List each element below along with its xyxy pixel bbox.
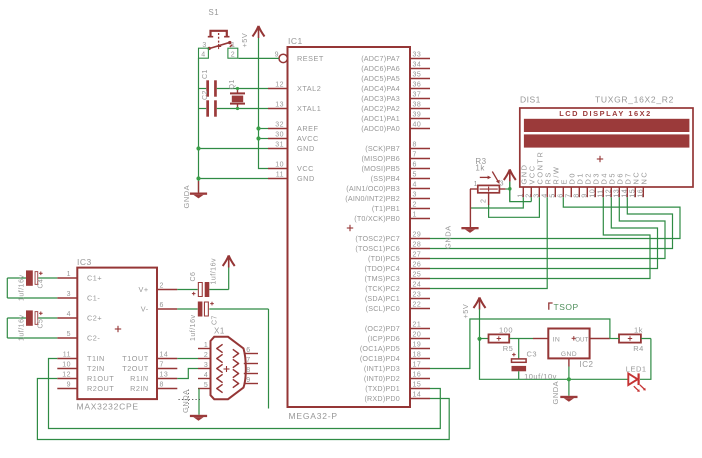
- svg-text:1uf/16v: 1uf/16v: [19, 275, 26, 301]
- svg-text:11: 11: [63, 352, 71, 359]
- svg-text:T1OUT: T1OUT: [122, 354, 148, 363]
- svg-text:(MOSI)PB5: (MOSI)PB5: [361, 164, 400, 173]
- svg-text:29: 29: [413, 232, 422, 239]
- svg-text:14: 14: [160, 352, 169, 359]
- svg-text:(OC1A)PD5: (OC1A)PD5: [360, 344, 400, 353]
- svg-text:9: 9: [67, 382, 71, 389]
- svg-text:2: 2: [204, 352, 208, 359]
- svg-text:+5V: +5V: [461, 304, 470, 319]
- svg-text:12: 12: [275, 82, 284, 89]
- svg-text:C6: C6: [190, 272, 197, 282]
- svg-text:C5: C5: [38, 319, 45, 329]
- svg-text:(TXD)PD1: (TXD)PD1: [365, 384, 400, 393]
- svg-text:RESET: RESET: [297, 54, 324, 63]
- svg-text:C1-: C1-: [87, 294, 100, 303]
- svg-text:9: 9: [246, 377, 250, 384]
- svg-text:8: 8: [160, 382, 164, 389]
- svg-text:2: 2: [481, 199, 488, 203]
- svg-text:X1: X1: [214, 327, 225, 336]
- svg-text:+5V: +5V: [240, 33, 249, 48]
- svg-text:(T0/XCK)PB0: (T0/XCK)PB0: [354, 214, 400, 223]
- svg-text:(T1)PB1: (T1)PB1: [372, 204, 400, 213]
- svg-text:(OC2)PD7: (OC2)PD7: [365, 324, 400, 333]
- svg-text:27: 27: [413, 252, 422, 259]
- svg-text:C7: C7: [211, 315, 218, 325]
- svg-text:IC3: IC3: [77, 257, 92, 267]
- svg-text:10: 10: [62, 362, 71, 369]
- svg-text:C1+: C1+: [87, 274, 102, 283]
- svg-text:AVCC: AVCC: [297, 134, 319, 143]
- svg-text:8: 8: [246, 367, 250, 374]
- svg-text:(SS)PB4: (SS)PB4: [371, 174, 400, 183]
- svg-text:22: 22: [413, 302, 422, 309]
- svg-text:(AIN1/OC0)PB3: (AIN1/OC0)PB3: [346, 184, 400, 193]
- svg-text:T2IN: T2IN: [87, 364, 105, 373]
- svg-text:IN: IN: [553, 336, 561, 343]
- svg-text:1: 1: [474, 181, 478, 188]
- svg-text:13: 13: [275, 102, 284, 109]
- svg-text:4: 4: [413, 182, 417, 189]
- svg-text:34: 34: [413, 62, 422, 69]
- svg-text:R4: R4: [633, 344, 644, 353]
- svg-text:(INT1)PD3: (INT1)PD3: [364, 364, 400, 373]
- svg-text:(ADC6)PA6: (ADC6)PA6: [361, 64, 400, 73]
- svg-text:100: 100: [499, 326, 513, 335]
- svg-text:TSOP: TSOP: [554, 302, 579, 312]
- svg-text:GND: GND: [297, 174, 315, 183]
- svg-text:6: 6: [160, 302, 164, 309]
- svg-text:1: 1: [204, 342, 208, 349]
- svg-text:5: 5: [413, 172, 417, 179]
- svg-text:15: 15: [413, 382, 422, 389]
- svg-text:26: 26: [413, 262, 422, 269]
- svg-text:2: 2: [413, 202, 417, 209]
- svg-text:XTAL2: XTAL2: [297, 84, 321, 93]
- svg-text:MAX3232CPE: MAX3232CPE: [77, 402, 139, 412]
- svg-text:(SCK)PB7: (SCK)PB7: [365, 144, 400, 153]
- svg-text:1: 1: [67, 271, 71, 278]
- svg-text:LED1: LED1: [626, 365, 647, 374]
- svg-text:14: 14: [413, 392, 422, 399]
- svg-text:VCC: VCC: [297, 164, 314, 173]
- svg-text:13: 13: [160, 372, 169, 379]
- svg-text:Q1: Q1: [229, 79, 236, 89]
- svg-text:(OC1B)PD4: (OC1B)PD4: [360, 354, 400, 363]
- svg-text:IC1: IC1: [288, 36, 303, 46]
- svg-text:7: 7: [246, 357, 250, 364]
- svg-text:16: 16: [413, 372, 422, 379]
- svg-text:(ADC4)PA4: (ADC4)PA4: [361, 84, 400, 93]
- svg-text:6: 6: [246, 347, 250, 354]
- svg-text:2: 2: [160, 283, 164, 290]
- svg-text:20: 20: [413, 332, 422, 339]
- svg-text:(AIN0/INT2)PB2: (AIN0/INT2)PB2: [345, 194, 400, 203]
- svg-text:V+: V+: [139, 285, 149, 294]
- svg-text:LCD DISPLAY 16X2: LCD DISPLAY 16X2: [559, 109, 652, 118]
- svg-text:(ICP)PD6: (ICP)PD6: [368, 334, 400, 343]
- svg-text:T1IN: T1IN: [87, 354, 105, 363]
- svg-text:9: 9: [275, 52, 279, 59]
- svg-text:18: 18: [413, 352, 422, 359]
- svg-text:(SDA)PC1: (SDA)PC1: [365, 294, 400, 303]
- svg-text:R1IN: R1IN: [130, 374, 149, 383]
- svg-text:GNDA: GNDA: [444, 225, 453, 249]
- svg-text:C3: C3: [527, 350, 538, 359]
- svg-text:(TOSC1)PC6: (TOSC1)PC6: [355, 244, 400, 253]
- svg-text:4: 4: [67, 311, 71, 318]
- svg-text:GND: GND: [297, 144, 315, 153]
- svg-text:1: 1: [413, 212, 417, 219]
- svg-text:3: 3: [500, 181, 504, 188]
- svg-text:19: 19: [413, 342, 422, 349]
- svg-text:C4: C4: [38, 279, 45, 289]
- svg-text:GND: GND: [561, 351, 577, 358]
- svg-text:1uf/16v: 1uf/16v: [190, 315, 197, 341]
- svg-text:T2OUT: T2OUT: [122, 364, 148, 373]
- svg-text:32: 32: [275, 122, 284, 129]
- svg-text:MEGA32-P: MEGA32-P: [289, 411, 338, 421]
- svg-text:2: 2: [231, 52, 235, 59]
- svg-text:C2-: C2-: [87, 334, 100, 343]
- svg-text:V-: V-: [141, 305, 149, 314]
- svg-text:R2OUT: R2OUT: [87, 384, 114, 393]
- svg-text:25: 25: [413, 272, 422, 279]
- svg-text:10: 10: [275, 162, 284, 169]
- svg-text:R1OUT: R1OUT: [87, 374, 114, 383]
- svg-text:(TMS)PC3: (TMS)PC3: [364, 274, 400, 283]
- svg-text:11: 11: [276, 172, 284, 179]
- svg-text:TUXGR_16X2_R2: TUXGR_16X2_R2: [595, 95, 674, 105]
- svg-text:NC: NC: [640, 171, 649, 185]
- svg-text:38: 38: [413, 102, 422, 109]
- svg-text:S1: S1: [209, 8, 220, 17]
- svg-text:7: 7: [160, 362, 164, 369]
- svg-text:3: 3: [204, 362, 208, 369]
- svg-text:5: 5: [204, 382, 208, 389]
- svg-text:GNDA: GNDA: [182, 185, 191, 209]
- svg-text:17: 17: [413, 362, 422, 369]
- svg-text:36: 36: [413, 82, 422, 89]
- svg-text:(ADC2)PA2: (ADC2)PA2: [361, 104, 400, 113]
- svg-text:(ADC3)PA3: (ADC3)PA3: [361, 94, 400, 103]
- svg-text:(TDI)PC5: (TDI)PC5: [368, 254, 400, 263]
- svg-text:23: 23: [413, 292, 422, 299]
- svg-text:4: 4: [204, 372, 208, 379]
- svg-text:1k: 1k: [634, 326, 643, 335]
- svg-text:(TCK)PC2: (TCK)PC2: [365, 284, 400, 293]
- svg-text:XTAL1: XTAL1: [297, 104, 321, 113]
- svg-text:37: 37: [413, 92, 422, 99]
- svg-text:1uf/16v: 1uf/16v: [211, 258, 218, 284]
- svg-text:(RXD)PD0: (RXD)PD0: [364, 394, 400, 403]
- svg-text:3: 3: [413, 192, 417, 199]
- svg-text:1k: 1k: [475, 164, 485, 173]
- svg-text:31: 31: [275, 142, 284, 149]
- svg-text:(MISO)PB6: (MISO)PB6: [361, 154, 400, 163]
- svg-text:10uf/10v: 10uf/10v: [524, 372, 557, 381]
- svg-text:28: 28: [413, 242, 422, 249]
- svg-text:(INT0)PD2: (INT0)PD2: [364, 374, 400, 383]
- svg-text:16: 16: [636, 189, 645, 198]
- svg-text:(ADC7)PA7: (ADC7)PA7: [361, 54, 400, 63]
- svg-text:GNDA: GNDA: [551, 381, 560, 405]
- svg-text:1uf/16v: 1uf/16v: [19, 315, 26, 341]
- svg-text:DIS1: DIS1: [520, 95, 541, 105]
- svg-text:IC2: IC2: [580, 360, 594, 369]
- svg-text:3: 3: [67, 291, 71, 298]
- svg-text:6: 6: [413, 162, 417, 169]
- svg-text:GNDA: GNDA: [181, 389, 190, 413]
- svg-text:(ADC5)PA5: (ADC5)PA5: [361, 74, 400, 83]
- svg-text:(SCL)PC0: (SCL)PC0: [366, 304, 400, 313]
- svg-text:40: 40: [413, 122, 422, 129]
- svg-text:(ADC0)PA0: (ADC0)PA0: [361, 124, 400, 133]
- svg-text:AREF: AREF: [297, 124, 319, 133]
- svg-text:R2IN: R2IN: [130, 384, 149, 393]
- svg-text:5: 5: [67, 331, 71, 338]
- svg-text:35: 35: [413, 72, 422, 79]
- svg-text:(ADC1)PA1: (ADC1)PA1: [361, 114, 400, 123]
- svg-text:8: 8: [413, 142, 417, 149]
- svg-text:C2+: C2+: [87, 314, 102, 323]
- svg-text:C1: C1: [202, 69, 209, 79]
- svg-text:(TDO)PC4: (TDO)PC4: [364, 264, 400, 273]
- svg-text:C2: C2: [202, 90, 209, 100]
- svg-text:OUT: OUT: [575, 336, 588, 343]
- svg-text:21: 21: [413, 322, 422, 329]
- svg-text:24: 24: [413, 282, 422, 289]
- svg-text:R5: R5: [503, 344, 514, 353]
- svg-text:7: 7: [413, 152, 417, 159]
- svg-text:33: 33: [413, 52, 422, 59]
- svg-text:39: 39: [413, 112, 422, 119]
- svg-text:12: 12: [62, 372, 71, 379]
- svg-text:30: 30: [275, 132, 284, 139]
- svg-text:(TOSC2)PC7: (TOSC2)PC7: [355, 234, 400, 243]
- svg-text:4: 4: [201, 52, 205, 59]
